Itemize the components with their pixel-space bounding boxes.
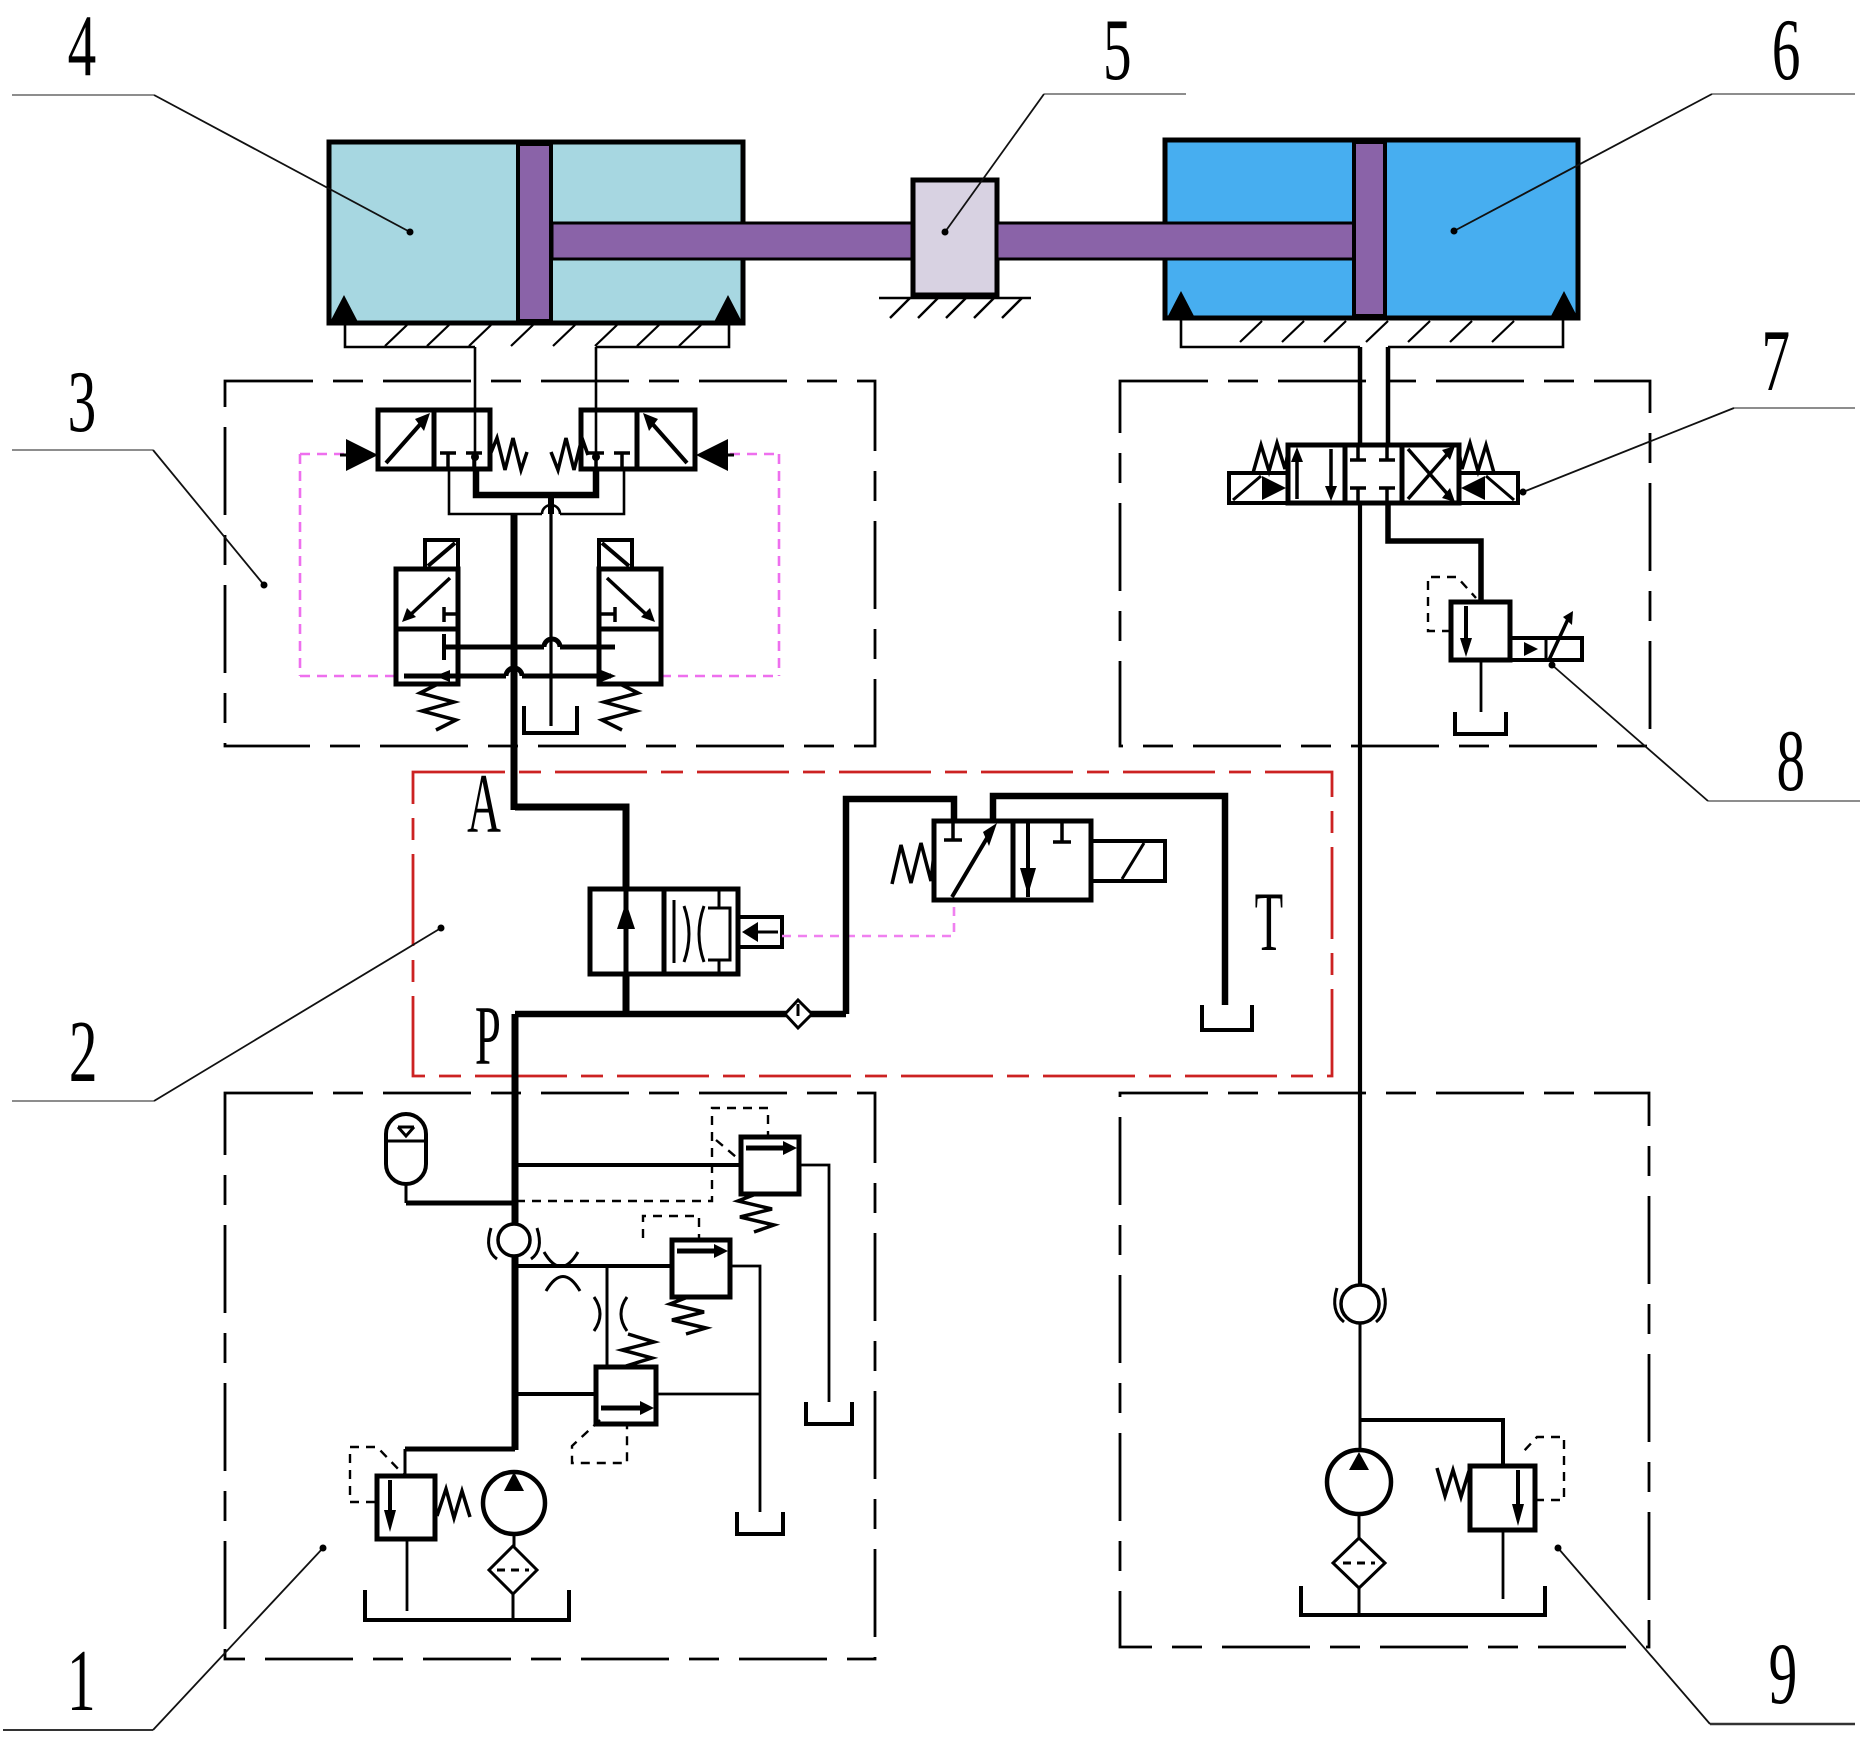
R3 spring (622, 1334, 654, 1366)
pump 1 outlet wire (513, 1534, 516, 1547)
prop valve right cell port (1053, 821, 1071, 842)
solenoid valve V1 (378, 410, 490, 469)
valve7 right solenoid (1459, 473, 1518, 503)
cylinder 6 piston (1354, 142, 1385, 316)
wire A elbow (515, 807, 626, 889)
tank symbol valve8 (1455, 712, 1506, 734)
wire pilot riser (846, 799, 954, 1014)
wire cylinder6 to valve7 left (1358, 347, 1363, 445)
RV9 spring W (1437, 1468, 1469, 1497)
prop valve arrow (952, 823, 997, 897)
orifice arcs vertical (594, 1297, 627, 1331)
pilot valve V4 (599, 540, 632, 569)
wire valve7 down long (1358, 503, 1362, 1285)
svg-text:8: 8 (1776, 713, 1805, 810)
pilot valve V3 (425, 540, 458, 569)
solenoid valve V2 (581, 410, 695, 469)
relief valve R1 (741, 1137, 799, 1194)
R3 outlet (656, 1393, 760, 1396)
cylinder 4 mount triangles (330, 295, 742, 322)
valve8 drain (1480, 660, 1483, 712)
valve interconnect line lower (404, 668, 611, 676)
tank symbol R2 (737, 1512, 783, 1534)
flow control valve body (590, 889, 738, 974)
red control box 2 (413, 772, 1332, 1076)
label 4 (68, 0, 97, 95)
svg-text:2: 2 (69, 1004, 98, 1101)
prop valve port T (944, 821, 962, 840)
check valve diamond (785, 1000, 812, 1028)
wire flow valve to P (623, 974, 630, 1014)
V2 pilot arrow (696, 439, 734, 471)
wire pump9 riser (1359, 1323, 1362, 1450)
wire valve7 to valve8 (1388, 503, 1481, 602)
leader line 4 (12, 95, 414, 236)
V1 blocked ports (440, 453, 482, 469)
flow valve compensator internals (674, 889, 730, 974)
port label T (1255, 874, 1284, 968)
R1 drain (799, 1165, 829, 1402)
cylinder 4 body (329, 142, 743, 323)
cylinder 6 mount triangles (1167, 291, 1578, 318)
pump 1 (483, 1472, 545, 1534)
wire to valve R3 (606, 1266, 609, 1367)
valve interconnect line upper (444, 639, 615, 647)
label 3 (68, 354, 97, 451)
port label P (475, 988, 501, 1082)
svg-text:A: A (467, 756, 501, 850)
svg-text:1: 1 (67, 1633, 96, 1730)
svg-text:7: 7 (1761, 313, 1790, 410)
guide block 5 (913, 180, 997, 295)
valve7 left solenoid (1229, 473, 1288, 503)
V1 flow arrow (386, 413, 430, 463)
cylinder 4 ground hatching (385, 325, 701, 346)
wire to relief valve R1 (515, 1163, 741, 1167)
svg-text:5: 5 (1103, 2, 1132, 99)
svg-text:3: 3 (68, 354, 97, 451)
valve7 left position arrows (1291, 447, 1337, 501)
leader line 9 (1555, 1545, 1856, 1725)
tank symbol T (1202, 1005, 1252, 1030)
valve7 right spring (1459, 443, 1494, 473)
V3 side port T (444, 607, 458, 622)
V4 body (599, 569, 661, 684)
guide block 5 ground (879, 298, 1031, 318)
cylinder 4 piston (518, 144, 551, 321)
sequence valve R2 (672, 1240, 730, 1297)
tank symbol main (365, 1590, 569, 1620)
interconnect arrows (435, 670, 616, 682)
valve7 left spring (1253, 443, 1288, 473)
accumulator (386, 1114, 426, 1184)
V3 spring (420, 684, 456, 730)
label 8 (1776, 713, 1805, 810)
svg-text:6: 6 (1772, 2, 1801, 99)
V1 pilot arrow (340, 439, 378, 471)
V2 spring (551, 438, 588, 470)
svg-text:P: P (475, 988, 501, 1082)
dashed box 7 8 (1120, 381, 1650, 746)
wire cylinder6 to valve7 right (1386, 347, 1391, 445)
magenta pilot box (300, 454, 779, 676)
filter 9 wire (1358, 1588, 1361, 1613)
RV spring W (437, 1489, 470, 1518)
directional valve 7 body (1288, 445, 1459, 503)
leader line 8 (1549, 662, 1861, 802)
V1 spring (490, 438, 527, 470)
port label A (467, 756, 501, 850)
R1 pilot dashed (516, 1108, 768, 1201)
check valve CV9 (1335, 1285, 1386, 1323)
leader line 2 (12, 925, 445, 1102)
wire unload branch (515, 1392, 596, 1396)
cylinder 6 mounting bracket (1181, 320, 1563, 347)
V3 body (396, 569, 458, 684)
pump 9 outlet (1358, 1514, 1361, 1538)
filter 9 (1333, 1538, 1385, 1588)
tank symbol 9 (1301, 1586, 1545, 1615)
V2 blocked ports (588, 453, 630, 469)
RV pilot dashed (350, 1447, 403, 1502)
proportional relief valve body (934, 821, 1091, 900)
RV drain (406, 1539, 409, 1611)
interconnect port bar (442, 634, 446, 660)
wire cylinder4 port B down (595, 347, 598, 469)
leader line 3 (12, 450, 268, 589)
main relief valve RV (377, 1476, 435, 1539)
valve7 centre blocked ports (1350, 445, 1395, 503)
tank symbol valve block (524, 706, 577, 733)
wire to tank (549, 514, 552, 726)
V4 spring (602, 684, 638, 730)
tank symbol R1 (806, 1402, 852, 1424)
V4 side port T (599, 607, 615, 622)
collector lines under V1 V2 (476, 469, 596, 514)
svg-text:4: 4 (68, 0, 97, 95)
cylinder 6 rod (997, 223, 1355, 259)
dashed box 1 (225, 1093, 875, 1659)
wire valve top to T (993, 796, 1225, 1005)
accumulator wire (405, 1185, 408, 1203)
label 7 (1761, 313, 1790, 410)
cylinder 4 mounting bracket (345, 324, 729, 347)
valve8 pilot dashed (1428, 577, 1476, 631)
valve8 adjuster box (1510, 611, 1582, 660)
label 9 (1769, 1626, 1798, 1723)
V4 flow arrow (607, 578, 655, 622)
thin interconnect wire (449, 469, 624, 514)
wire cylinder4 port A down (474, 347, 477, 469)
V3 flow arrow (402, 578, 450, 622)
prop valve spring (892, 843, 934, 884)
prop valve solenoid (1091, 841, 1165, 881)
svg-text:T: T (1255, 874, 1284, 968)
label 5 (1103, 2, 1132, 99)
R1 spring (738, 1194, 774, 1232)
leader line 7 (1520, 408, 1856, 496)
wire P main line lower (512, 1014, 519, 1450)
R2 drain (730, 1266, 760, 1512)
wire A main line upper (511, 514, 518, 810)
prop valve right cell arrow (1020, 823, 1036, 897)
pump 9 (1327, 1450, 1391, 1514)
reducing valve 8 body (1451, 602, 1510, 660)
label 2 (69, 1004, 98, 1101)
relief valve RV9 (1470, 1466, 1535, 1530)
wire P line (515, 1011, 846, 1018)
cylinder 6 body (1165, 140, 1578, 318)
label 6 (1772, 2, 1801, 99)
node junction dots (471, 453, 600, 461)
filter 1 wire (512, 1594, 515, 1618)
wire branch to RV9 (1360, 1420, 1503, 1466)
dashed box 3 (225, 381, 875, 746)
flow valve up arrow (617, 889, 635, 974)
leader line 1 (3, 1545, 327, 1731)
RV9 pilot dashed (1523, 1437, 1564, 1500)
cylinder 6 ground hatching (1240, 321, 1514, 342)
pink pilot line (782, 899, 954, 936)
RV top wire (404, 1449, 407, 1476)
R2 pilot dashed (643, 1216, 699, 1238)
wire orifice branch (515, 1264, 672, 1268)
leader line 5 (942, 94, 1187, 236)
cylinder 4 rod (552, 223, 914, 259)
R3 pilot dashed (572, 1420, 627, 1463)
flow valve pilot port box (738, 917, 782, 947)
valve7 cross position (1408, 446, 1455, 502)
filter 1 (489, 1546, 537, 1594)
V2 flow arrow (643, 413, 687, 463)
dashed box 9 (1120, 1093, 1649, 1647)
leader line 6 (1451, 94, 1856, 235)
svg-text:9: 9 (1769, 1626, 1798, 1723)
RV9 drain (1502, 1530, 1505, 1599)
check valve CV1 (489, 1224, 540, 1259)
orifice arcs horizontal (544, 1252, 580, 1291)
R2 spring (670, 1297, 706, 1334)
label 1 (67, 1633, 96, 1730)
unloading valve R3 (596, 1367, 656, 1424)
